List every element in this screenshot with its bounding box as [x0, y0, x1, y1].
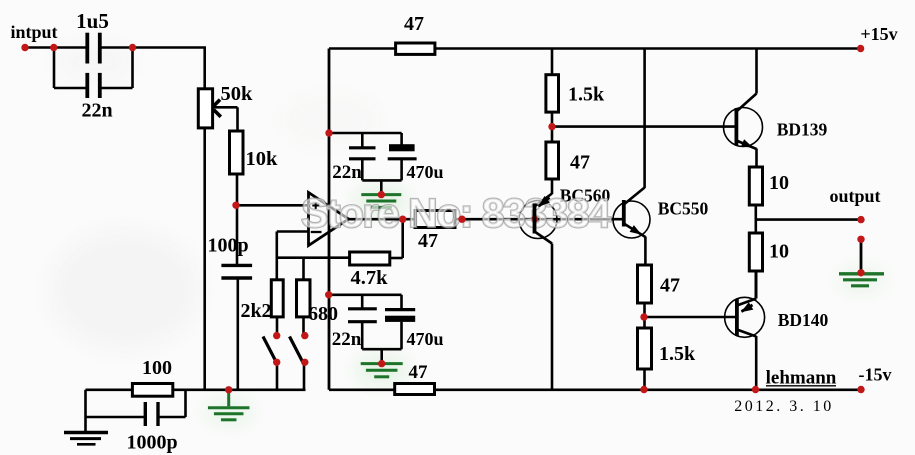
- svg-text:BD139: BD139: [777, 120, 828, 140]
- svg-text:22n: 22n: [332, 162, 362, 183]
- svg-text:47: 47: [404, 13, 424, 35]
- svg-text:BD140: BD140: [778, 310, 829, 330]
- svg-text:2k2: 2k2: [240, 300, 271, 322]
- svg-text:50k: 50k: [221, 83, 254, 105]
- svg-text:470u: 470u: [406, 329, 443, 349]
- svg-text:4.7k: 4.7k: [350, 267, 388, 289]
- svg-text:22n: 22n: [81, 100, 112, 122]
- svg-text:470u: 470u: [406, 162, 443, 182]
- svg-text:1.5k: 1.5k: [568, 84, 605, 106]
- svg-text:intput: intput: [10, 22, 57, 42]
- svg-text:10: 10: [769, 241, 789, 263]
- svg-text:47: 47: [660, 275, 680, 297]
- svg-text:47: 47: [409, 362, 429, 383]
- svg-text:100: 100: [142, 357, 172, 379]
- svg-text:680: 680: [308, 303, 338, 325]
- svg-text:BC550: BC550: [658, 199, 709, 219]
- svg-text:1000p: 1000p: [126, 432, 177, 454]
- svg-text:10k: 10k: [246, 148, 279, 170]
- svg-text:+15v: +15v: [860, 24, 897, 44]
- svg-text:-15v: -15v: [859, 365, 892, 385]
- svg-text:10: 10: [769, 172, 789, 194]
- svg-text:2012. 3. 10: 2012. 3. 10: [734, 398, 834, 415]
- svg-text:1u5: 1u5: [76, 9, 109, 33]
- svg-text:output: output: [829, 186, 880, 206]
- svg-text:100p: 100p: [207, 235, 248, 257]
- svg-text:22n: 22n: [332, 329, 362, 350]
- svg-text:47: 47: [570, 152, 590, 174]
- svg-text:Store No: 833384: Store No: 833384: [301, 190, 612, 236]
- svg-text:1.5k: 1.5k: [659, 343, 696, 365]
